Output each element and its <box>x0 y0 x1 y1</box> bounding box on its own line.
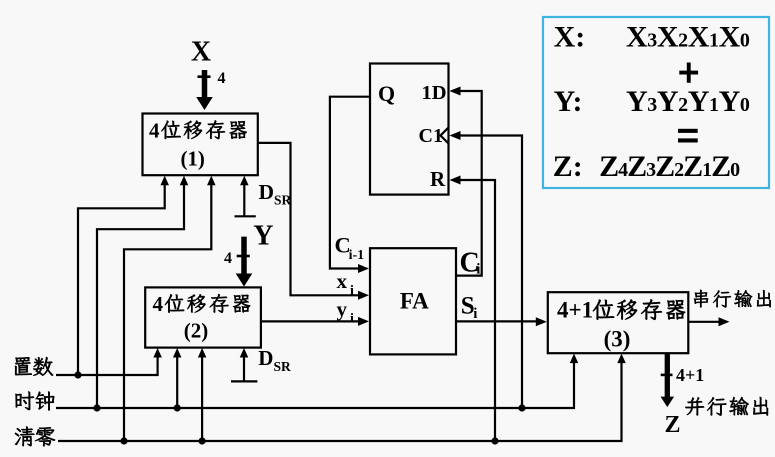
wire: FA Si output to box3 input <box>456 320 537 322</box>
svg-text:1D: 1D <box>422 82 447 104</box>
wire: clear branch up to U1 R input <box>460 180 495 441</box>
arrowhead: box2 pin b1 <box>153 348 162 358</box>
register box 1: 4-bit shift register (1) <box>143 114 258 176</box>
junction dot: clock / box2-b2 <box>174 404 181 411</box>
arrowhead: clear into box3 <box>617 354 626 364</box>
arrowhead: box2 pin b3 <box>198 348 207 358</box>
svg-text:i-1: i-1 <box>349 248 365 263</box>
arrowhead: C1 input of U1 <box>450 131 461 140</box>
svg-text:C1: C1 <box>419 125 443 147</box>
svg-text:i: i <box>473 306 477 322</box>
wire: FA Ci output up to U1 1D input <box>456 91 482 276</box>
X thick bus arrow into box1 <box>196 70 213 110</box>
register box 3: 4+1-bit shift register (3) <box>548 292 689 353</box>
wire: Z bus tick (width 4+1) <box>661 374 673 377</box>
equation row + (drawn) <box>679 63 698 83</box>
arrowhead: box1 pin a1 <box>160 176 169 186</box>
arrowhead: box1 pin a2 <box>180 176 189 186</box>
svg-text:Z:: Z: <box>553 150 583 183</box>
D flip-flop U1 <box>370 64 449 195</box>
svg-text:4: 4 <box>218 70 226 87</box>
svg-text:(3): (3) <box>604 327 631 352</box>
wire: clock branch up to box2 pin b2 <box>176 357 178 408</box>
wire: load branch up to box1 pin a1 <box>78 185 165 375</box>
wire: zhishu (load) rail into box2 pin b1 <box>56 357 158 375</box>
wire: clock branch up to box1 pin a2 <box>97 185 184 408</box>
wire: shizhong (clock) rail up into box3 <box>56 363 574 408</box>
equation box (cyan border) <box>543 17 769 188</box>
svg-text:R: R <box>430 167 446 191</box>
junction dot: clear / box1-a3 <box>120 437 127 444</box>
arrowhead: 1D input of U1 <box>450 87 461 96</box>
wire: clear branch up to box2 pin b3 <box>201 357 203 441</box>
svg-text:X3X2X1X0: X3X2X1X0 <box>626 21 750 54</box>
left label zhishu (load) <box>15 357 32 375</box>
svg-text:Y: Y <box>253 221 273 252</box>
junction dot: clock / box1-a2 <box>93 404 100 411</box>
wire: box2 output right to FA yi input <box>261 320 359 322</box>
equation row = (drawn) <box>678 129 698 133</box>
junction dot: clear / R branch <box>491 437 498 444</box>
arrowhead: Ci-1 into FA <box>358 264 369 273</box>
Z thick parallel-output bus arrow from box3 <box>661 354 675 407</box>
svg-text:Y:: Y: <box>554 85 583 118</box>
arrowhead: box2 DSR pin <box>240 348 249 358</box>
svg-text:Z: Z <box>664 412 680 438</box>
svg-text:4: 4 <box>153 292 164 316</box>
right label chuanhang-shuchu (serial output) <box>694 290 708 308</box>
arrowhead: clock into box3 <box>570 354 579 364</box>
arrowhead: box2 pin b2 <box>173 348 182 358</box>
svg-text:4+1: 4+1 <box>557 298 593 323</box>
wire: box1 output right then down to FA xi input <box>258 143 359 295</box>
svg-text:(2): (2) <box>184 319 209 343</box>
svg-text:Y3Y2Y1Y0: Y3Y2Y1Y0 <box>626 85 750 118</box>
svg-text:4: 4 <box>224 250 232 267</box>
wire: X bus tick (width 4) <box>198 75 211 78</box>
arrowhead: R input of U1 <box>450 176 461 185</box>
box1 title CJK 位移存器 <box>161 121 180 139</box>
svg-text:D: D <box>259 180 275 204</box>
svg-text:X: X <box>191 37 211 68</box>
wire: qingling (clear) rail up into box3 <box>58 363 622 441</box>
junction dot: load / box1-a1 <box>74 371 81 378</box>
svg-text:4+1: 4+1 <box>676 365 704 385</box>
wire: clear branch up to box1 pin a3 <box>124 185 211 441</box>
left label qingling (clear) <box>15 427 34 447</box>
arrowhead: serial output <box>719 317 730 326</box>
svg-text:y: y <box>337 297 348 321</box>
left label shizhong (clock) <box>15 392 34 410</box>
svg-text:X:: X: <box>554 21 586 54</box>
svg-text:i: i <box>476 262 480 278</box>
svg-text:x: x <box>337 269 348 293</box>
arrowhead: Si into box3 <box>536 317 547 326</box>
box3 title CJK 位移存器 <box>593 300 614 320</box>
wire: clock branch up to U1 C1 input <box>460 136 522 409</box>
svg-text:Q: Q <box>378 81 395 106</box>
svg-text:SR: SR <box>274 359 292 374</box>
svg-text:SR: SR <box>274 193 292 208</box>
full adder FA <box>370 248 456 354</box>
junction dot: clear / box2-b3 <box>199 437 206 444</box>
arrowhead: xi into FA <box>358 291 369 300</box>
junction dot: clock / C1 branch <box>518 404 525 411</box>
svg-text:D: D <box>258 346 273 370</box>
arrowhead: box1 DSR pin <box>240 176 249 186</box>
svg-text:4: 4 <box>149 119 160 143</box>
wire: DSR stub of box1 with ground bar <box>235 185 256 216</box>
right label binghang-shuchu (parallel output) <box>685 397 704 415</box>
wire: serial output from box3 <box>688 321 720 323</box>
arrowhead: box1 pin a3 <box>207 176 216 186</box>
wire: Q feedback from U1 to FA Ci-1 input <box>330 97 370 269</box>
arrowhead: yi into FA <box>358 317 369 326</box>
svg-text:FA: FA <box>400 288 429 313</box>
clock wedge on C1 pin of U1 <box>441 128 449 144</box>
Y thick bus arrow into box2 <box>236 237 253 287</box>
register box 2: 4-bit shift register (2) <box>145 287 261 347</box>
svg-text:(1): (1) <box>180 146 205 170</box>
svg-text:i: i <box>350 311 354 326</box>
box2 title CJK 位移存器 <box>165 294 184 312</box>
wire: Y bus tick (width 4) <box>237 255 250 258</box>
svg-text:i: i <box>350 283 354 298</box>
wire: DSR stub of box2 with ground bar <box>231 357 257 381</box>
